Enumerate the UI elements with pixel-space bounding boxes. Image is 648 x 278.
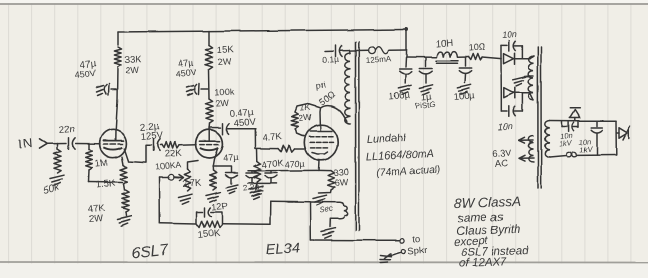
svg-text:Lundahl: Lundahl: [367, 132, 407, 146]
mains primary coil: [545, 121, 550, 158]
svg-text:100µ: 100µ: [388, 90, 411, 103]
tube V2 6SL7 second triode: [196, 130, 223, 158]
svg-text:450V: 450V: [233, 117, 257, 130]
svg-text:10H: 10H: [435, 38, 453, 50]
tube EL34: [304, 125, 338, 161]
ground cathode caps: [250, 190, 263, 193]
svg-text:1kV: 1kV: [558, 138, 573, 148]
capacitor 47u 450V decoupling 1: [111, 88, 118, 90]
PT core: [537, 47, 539, 188]
svg-text:22n: 22n: [58, 124, 75, 136]
svg-text:4.7K: 4.7K: [262, 131, 283, 144]
svg-text:2W: 2W: [88, 213, 103, 225]
wire B+ rail top: [118, 30, 407, 33]
svg-text:100µ: 100µ: [453, 90, 476, 103]
capacitor 47u cathode bypass: [213, 166, 232, 172]
wire feedback drop: [159, 177, 161, 223]
svg-text:EL34: EL34: [265, 240, 300, 258]
resistor 2.7K cathode: [210, 170, 217, 190]
ground 2.7K: [207, 192, 221, 195]
wire secondary to speaker: [310, 239, 399, 241]
pot 100KA element: [188, 161, 199, 170]
wire feedback bottom: [160, 222, 196, 225]
svg-text:to: to: [412, 233, 421, 245]
svg-text:10n: 10n: [501, 29, 517, 40]
OPT secondary box: [309, 202, 311, 240]
wire 15K to 100k: [208, 69, 211, 99]
svg-text:2W: 2W: [126, 65, 141, 76]
ground pot: [178, 194, 192, 197]
wire 1M to cathode junction: [89, 181, 123, 184]
wire EL34 cathode: [318, 160, 321, 170]
wire speaker gnd: [387, 252, 401, 256]
svg-text:125V: 125V: [140, 130, 164, 143]
wire mains top: [550, 120, 579, 122]
svg-text:10n: 10n: [497, 121, 513, 132]
svg-text:12P: 12P: [211, 201, 228, 212]
capacitor 2.2u cathode: [251, 171, 253, 173]
svg-text:1kV: 1kV: [579, 144, 594, 154]
svg-text:1M: 1M: [94, 158, 108, 170]
resistor 150K feedback: [197, 221, 223, 227]
wire 330 to ground: [319, 190, 331, 193]
svg-text:0.1µ: 0.1µ: [322, 54, 339, 65]
terminal speaker gnd: [401, 249, 406, 254]
pot 100KA wiper: [160, 176, 169, 178]
resistor 1.5K cathode: [122, 157, 124, 165]
wire center tap: [525, 75, 531, 78]
svg-text:470µ: 470µ: [284, 158, 305, 169]
wire to EL34 grid: [254, 129, 256, 149]
annotation 8W ClassA block: [452, 194, 529, 271]
wire 33K to V1 plate: [117, 67, 120, 100]
resistor 1M grid: [88, 144, 90, 149]
resistor 50k grid leak: [57, 144, 59, 150]
junction B+ corner: [405, 28, 409, 32]
ground 47K: [117, 216, 131, 219]
heater arrow 2: [520, 157, 534, 159]
wire 100k to V2 plate: [208, 123, 211, 130]
wire EL34 plate to OPT: [319, 108, 322, 131]
svg-text:PiStG: PiStG: [414, 100, 436, 111]
terminal speaker hot: [400, 238, 405, 243]
wire feedback to secondary: [222, 223, 271, 226]
svg-text:100k: 100k: [215, 87, 236, 98]
capacitor 10n snubber top: [501, 45, 507, 47]
heater arrow 1: [520, 140, 534, 142]
OPT core: [355, 42, 357, 230]
resistor 47K 2W: [122, 190, 129, 212]
PT HV secondary: [529, 56, 534, 100]
svg-text:10Ω: 10Ω: [468, 42, 486, 53]
input arrow: [40, 139, 48, 149]
ground 330: [313, 195, 327, 198]
capacitor 470u cathode: [270, 171, 272, 173]
capacitor 10n 1kV horizontal: [562, 126, 567, 128]
wire V2 cathode: [213, 149, 218, 170]
ground 100u third: [457, 85, 470, 88]
wire rectifier node: [500, 46, 502, 59]
resistor 22K grid stopper: [161, 144, 163, 146]
ground secondary: [322, 228, 336, 231]
capacitor 0.1u snubber: [325, 50, 333, 52]
resistor 470K grid leak: [256, 149, 258, 161]
wire V1 plate to coupling cap: [124, 145, 151, 162]
diode mains top: [574, 118, 576, 121]
capacitor 10n 1kV vertical: [596, 121, 598, 126]
svg-text:Sec: Sec: [319, 204, 334, 215]
capacitor 2.2u 125V coupling: [153, 139, 155, 151]
resistor 4.7K grid stopper EL34: [278, 145, 294, 151]
wire cathode caps ground: [248, 182, 276, 184]
wire mains right: [615, 121, 617, 155]
PT heater winding: [529, 136, 534, 162]
capacitor 0.47u 450V coupling: [209, 127, 221, 129]
diode mains right: [616, 132, 619, 134]
capacitor 22n input: [68, 138, 70, 149]
resistor 100k 2W: [206, 99, 213, 123]
ground 100u first: [398, 85, 411, 88]
ground 50k: [50, 175, 64, 178]
capacitor 100u first: [405, 58, 408, 67]
ground speaker: [384, 254, 391, 259]
wire input: [47, 143, 66, 145]
resistor 10ohm: [468, 54, 482, 60]
capacitor 12P feedback: [196, 212, 203, 224]
resistor 33K 2W plate load: [114, 47, 121, 67]
capacitor 47u 450V decoupling 2: [201, 88, 209, 90]
resistor 1K 2W screen: [296, 129, 304, 137]
svg-text:AC: AC: [494, 158, 508, 170]
mains loop circles: [566, 152, 571, 157]
diode D2: [504, 88, 514, 98]
fuse 125mA: [369, 47, 376, 54]
ground 470K: [249, 186, 263, 189]
svg-text:Spkr: Spkr: [407, 245, 427, 257]
wire B+ filter line: [407, 56, 437, 58]
svg-text:2W: 2W: [298, 112, 311, 123]
svg-text:22K: 22K: [164, 148, 182, 160]
capacitor 10n snubber bottom: [501, 110, 507, 112]
ground 1u: [419, 85, 432, 88]
svg-text:1.5K: 1.5K: [95, 178, 116, 191]
capacitor 1u PiStG: [425, 58, 427, 67]
svg-text:47µ: 47µ: [222, 152, 238, 163]
OPT primary winding: [345, 53, 350, 124]
svg-text:8W ClassA: 8W ClassA: [454, 194, 521, 211]
ground 47u bypass: [226, 185, 238, 188]
diode D1: [504, 54, 514, 64]
svg-text:2W: 2W: [216, 98, 231, 109]
svg-text:6W: 6W: [334, 177, 349, 188]
svg-text:of 12AX7: of 12AX7: [459, 256, 507, 270]
capacitor 100u third: [464, 57, 466, 66]
svg-text:pri: pri: [315, 80, 326, 91]
tube V1 6SL7 first triode: [100, 129, 127, 157]
resistor 330 6W cathode: [319, 169, 332, 171]
svg-text:2W: 2W: [218, 56, 233, 67]
svg-text:125mA: 125mA: [366, 54, 393, 65]
svg-text:IN: IN: [18, 135, 34, 151]
resistor 15K 2W plate load: [205, 45, 212, 69]
ground center tap: [513, 77, 526, 80]
svg-text:15K: 15K: [217, 44, 235, 56]
choke 10H: [437, 52, 457, 58]
